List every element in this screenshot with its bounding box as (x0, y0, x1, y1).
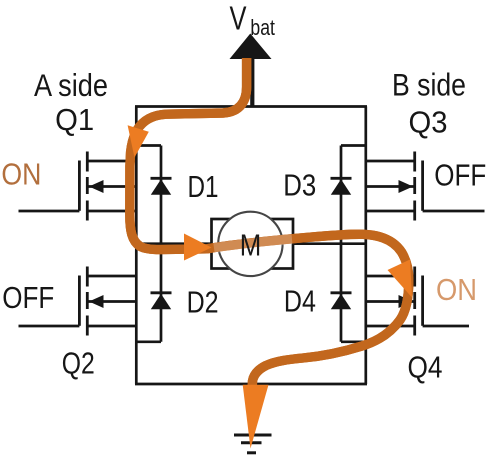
current arrowhead 3 (388, 260, 413, 298)
svg-text:Q2: Q2 (62, 346, 95, 381)
wire left branch (135, 107, 138, 385)
svg-text:Q4: Q4 (408, 349, 443, 384)
transistor Q1 (19, 152, 137, 221)
transistor Q3 (366, 152, 485, 221)
svg-text:D2: D2 (187, 284, 219, 319)
current arrowhead 1 (128, 125, 149, 157)
diode D3 (331, 178, 352, 195)
wire D4 bottom connector (341, 340, 367, 343)
wire D4 branch (340, 244, 343, 342)
wire D2 branch (160, 244, 163, 342)
svg-text:B side: B side (392, 67, 466, 103)
svg-text:V: V (230, 0, 247, 37)
wire D2 bottom connector (135, 340, 161, 343)
wire top rail (135, 105, 367, 108)
svg-text:Q3: Q3 (409, 105, 448, 140)
wire band fade over motor (214, 239, 292, 248)
wire right branch (364, 107, 367, 385)
svg-text:M: M (240, 228, 262, 263)
power V_bat (230, 0, 275, 107)
wire bottom rail (135, 383, 367, 386)
ground (234, 384, 272, 453)
svg-text:ON: ON (1, 157, 41, 192)
wire D1 top connector (135, 144, 161, 147)
svg-text:Q1: Q1 (55, 102, 94, 137)
diode D2 (151, 293, 172, 310)
transistor Q4 (366, 267, 469, 336)
svg-text:D4: D4 (284, 283, 316, 318)
wire mid rail right (292, 242, 366, 245)
wire D3 top connector (341, 144, 367, 147)
svg-text:A side: A side (34, 67, 108, 103)
wire mid rail left (136, 242, 212, 245)
svg-text:ON: ON (436, 272, 477, 307)
diode D1 (151, 178, 172, 195)
svg-text:OFF: OFF (2, 280, 54, 315)
svg-text:bat: bat (250, 15, 275, 40)
svg-text:D3: D3 (283, 167, 316, 202)
current arrowhead 2 (184, 234, 212, 261)
wire D1 branch (160, 146, 163, 244)
current arrowhead 4 (243, 385, 269, 449)
motor M (212, 212, 294, 276)
wire D3 branch (340, 146, 343, 244)
diode D4 (331, 293, 352, 310)
transistor Q2 (19, 267, 137, 336)
svg-text:D1: D1 (188, 169, 219, 204)
svg-text:OFF: OFF (434, 158, 486, 193)
current flow path (130, 58, 409, 388)
